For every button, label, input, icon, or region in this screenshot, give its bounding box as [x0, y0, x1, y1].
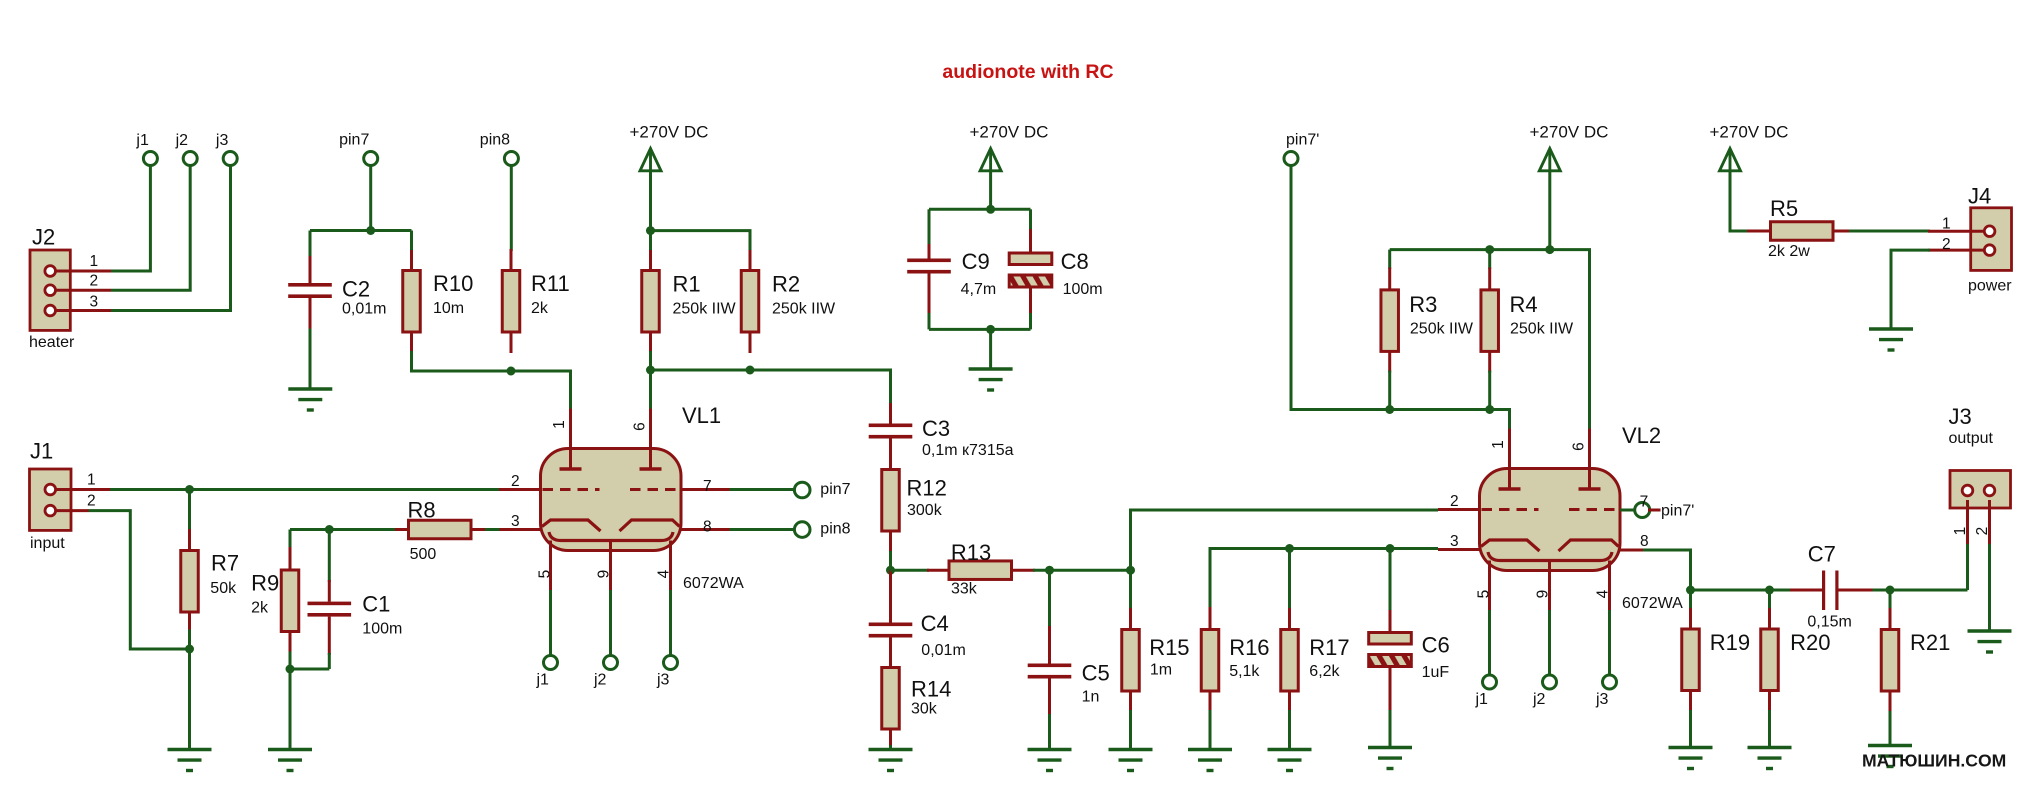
- svg-text:8: 8: [703, 519, 712, 536]
- svg-text:R19: R19: [1710, 630, 1750, 655]
- svg-text:R4: R4: [1510, 292, 1538, 317]
- capacitor C2: [309, 231, 312, 259]
- svg-text:2: 2: [90, 273, 99, 290]
- capacitor C4: [889, 570, 892, 622]
- svg-text:6,2k: 6,2k: [1309, 663, 1340, 680]
- junction R21 top: [1886, 586, 1895, 595]
- wire C9/C8 bottom rail: [929, 328, 1031, 331]
- wire R9-C1-R8 rail: [290, 528, 397, 531]
- svg-text:МАТЮШИН.COM: МАТЮШИН.COM: [1862, 751, 2006, 771]
- wire arrow1 down: [649, 171, 652, 231]
- terminal j2: [183, 152, 197, 166]
- wire R10/R11 bottom rail to VL1 pin1: [412, 351, 571, 409]
- capacitor C3: [889, 403, 892, 424]
- terminal j3: [223, 152, 237, 166]
- capacitor C5: [1048, 570, 1051, 628]
- wire VL1 pin8 lead: [681, 528, 730, 531]
- junction C9/C8 bottom: [986, 325, 995, 334]
- svg-text:C7: C7: [1808, 542, 1836, 567]
- VL1 anode pin 6: [649, 409, 652, 470]
- svg-text:pin7': pin7': [1286, 132, 1319, 149]
- VL2 cathode pin 3: [1481, 540, 1540, 551]
- svg-text:C9: C9: [962, 249, 990, 274]
- svg-text:input: input: [30, 535, 65, 552]
- resistor R11: [510, 249, 513, 271]
- resistor R12: [889, 439, 892, 471]
- svg-text:250k IIW: 250k IIW: [1410, 321, 1474, 338]
- junction R19 top: [1686, 586, 1695, 595]
- svg-text:0,01m: 0,01m: [921, 642, 965, 659]
- svg-text:j2: j2: [175, 132, 189, 149]
- svg-text:3: 3: [90, 294, 99, 311]
- svg-text:300k: 300k: [907, 502, 943, 519]
- svg-text:2: 2: [511, 473, 520, 490]
- terminal pin8 (VL1 out): [794, 522, 810, 538]
- svg-text:J2: J2: [32, 225, 55, 250]
- svg-text:R17: R17: [1309, 635, 1349, 660]
- svg-text:R5: R5: [1770, 196, 1798, 221]
- resistor R7: [188, 490, 191, 532]
- ground under R20: [1748, 746, 1792, 749]
- svg-text:3: 3: [1450, 533, 1459, 550]
- svg-text:0,15m: 0,15m: [1807, 614, 1851, 631]
- junction C5 top: [1045, 566, 1054, 575]
- junction R1 top node: [646, 226, 655, 235]
- terminal j3 (VL1): [664, 656, 678, 670]
- svg-text:pin7: pin7: [820, 481, 850, 498]
- svg-text:R20: R20: [1790, 630, 1830, 655]
- svg-text:C1: C1: [362, 592, 390, 617]
- svg-text:R9: R9: [251, 571, 279, 596]
- svg-text:j1: j1: [135, 132, 149, 149]
- resistor R13: [891, 569, 930, 572]
- connector J3: [1950, 471, 2011, 509]
- wire arrow2 down: [989, 171, 992, 210]
- junction pin7 node: [366, 226, 375, 235]
- terminal j1 (VL2): [1483, 675, 1497, 689]
- wire riser to VL2 grid: [1131, 510, 1439, 570]
- svg-text:50k: 50k: [210, 580, 237, 597]
- resistor R8: [395, 528, 409, 531]
- svg-text:7: 7: [703, 478, 712, 495]
- svg-text:30k: 30k: [911, 701, 938, 718]
- wire J1 pin1 to VL1 grid: [110, 488, 499, 491]
- svg-text:pin8: pin8: [820, 521, 850, 538]
- wire R1-R2 top rail: [651, 231, 751, 252]
- wire R9/C1 bottom: [290, 668, 329, 671]
- svg-text:C3: C3: [922, 416, 950, 441]
- VL2 cathode pin 8: [1559, 540, 1619, 551]
- svg-text:pin8: pin8: [480, 132, 510, 149]
- VL2 heater pin 9: [1548, 561, 1551, 613]
- svg-text:VL2: VL2: [1622, 423, 1661, 448]
- power +270V DC flag 4: [1720, 149, 1741, 171]
- terminal j1: [143, 152, 157, 166]
- svg-text:C2: C2: [342, 277, 370, 302]
- J3 pin 2 lead: [1988, 500, 1991, 544]
- junction C6 top: [1386, 544, 1395, 553]
- svg-text:100m: 100m: [362, 621, 402, 638]
- svg-text:R12: R12: [907, 476, 947, 501]
- junction R7 bottom: [185, 645, 194, 654]
- resistor R4: [1488, 250, 1491, 269]
- wire VL2 pin8 to R19/R20/C7 rail: [1620, 549, 1644, 552]
- VL2 anode pin 1: [1508, 429, 1511, 490]
- junction R17 top: [1285, 544, 1294, 553]
- VL2 grid pin 7 (dashed): [1569, 508, 1619, 511]
- junction R11 bottom: [507, 367, 516, 376]
- VL1 grid pin 7 (dashed): [630, 488, 680, 491]
- resistor R21: [1889, 590, 1892, 610]
- wire VL2 grid lead: [1620, 509, 1634, 512]
- svg-text:J1: J1: [30, 439, 53, 464]
- wire j1 to J2 pin1: [111, 165, 150, 271]
- capacitor C7: [1790, 589, 1824, 592]
- svg-text:R8: R8: [408, 498, 436, 523]
- J1 pin 1 lead: [55, 488, 110, 491]
- terminal pin7' (VL2 out): [1635, 503, 1650, 518]
- svg-text:8: 8: [1640, 533, 1649, 550]
- svg-text:250k IIW: 250k IIW: [772, 301, 836, 318]
- resistor R15: [1129, 570, 1132, 610]
- VL2 grid pin 2 (dashed): [1482, 508, 1539, 511]
- svg-text:power: power: [1968, 278, 2012, 295]
- svg-text:1uF: 1uF: [1422, 664, 1450, 681]
- J1 pin 2 lead: [55, 509, 89, 512]
- terminal pin7 (VL1 out): [794, 482, 810, 498]
- svg-text:4: 4: [1595, 589, 1612, 598]
- svg-text:2: 2: [1450, 493, 1459, 510]
- VL1 heater: [549, 532, 673, 541]
- wire arrow4 to R5: [1730, 171, 1749, 231]
- svg-text:500: 500: [410, 546, 437, 563]
- VL1 heater pin 5: [549, 541, 552, 593]
- svg-text:33k: 33k: [951, 581, 978, 598]
- svg-text:100m: 100m: [1063, 281, 1103, 298]
- ground under R17: [1268, 748, 1312, 751]
- svg-text:C5: C5: [1082, 661, 1110, 686]
- svg-text:1: 1: [1952, 527, 1969, 536]
- junction R12/C4/R13 node: [886, 566, 895, 575]
- junction R7 top: [185, 485, 194, 494]
- terminal pin8: [504, 152, 518, 166]
- VL1 cathode pin 3: [542, 520, 601, 531]
- connector J2: [30, 250, 70, 330]
- junction C1 top: [325, 525, 334, 534]
- VL2 anode pin 6: [1588, 429, 1591, 490]
- svg-text:3: 3: [511, 513, 520, 530]
- svg-text:J4: J4: [1968, 184, 1991, 209]
- wire VL1 j2 drop: [609, 590, 612, 656]
- resistor R20: [1768, 590, 1771, 610]
- svg-text:j3: j3: [215, 132, 229, 149]
- svg-text:9: 9: [1535, 590, 1552, 599]
- wire pin8 down to R11: [510, 165, 513, 251]
- svg-text:1m: 1m: [1150, 662, 1172, 679]
- svg-text:R21: R21: [1910, 630, 1950, 655]
- ground under R7: [168, 748, 212, 751]
- svg-text:VL1: VL1: [682, 403, 721, 428]
- power +270V DC flag 3: [1539, 149, 1560, 171]
- svg-text:output: output: [1949, 430, 1994, 447]
- wire to J3 pin1: [1966, 542, 1969, 590]
- svg-text:+270V DC: +270V DC: [970, 123, 1049, 142]
- ground under R16: [1188, 748, 1232, 751]
- svg-text:J3: J3: [1949, 404, 1972, 429]
- wire VL1 pin6 drop: [649, 370, 652, 409]
- svg-text:1: 1: [1942, 216, 1951, 233]
- junction R4 top: [1485, 245, 1494, 254]
- wire VL2 j2 drop: [1548, 610, 1551, 675]
- svg-text:audionote with RC: audionote with RC: [942, 61, 1113, 83]
- wire C9/C8 top rail: [929, 208, 1031, 211]
- svg-text:j3: j3: [1595, 691, 1609, 708]
- ground under R14: [869, 748, 913, 751]
- wire VL2 pin6 stub: [1588, 431, 1591, 469]
- junction R2 bottom: [746, 366, 755, 375]
- wire VL1 j1 drop: [549, 590, 552, 656]
- junction R9 bottom: [286, 665, 295, 674]
- svg-text:C4: C4: [921, 611, 949, 636]
- svg-text:heater: heater: [29, 334, 75, 351]
- junction R15/grid riser: [1126, 566, 1135, 575]
- svg-text:+270V DC: +270V DC: [630, 123, 709, 142]
- junction C9/C8 top: [986, 205, 995, 214]
- wire J1 pin2 loop down: [89, 511, 190, 649]
- resistor R3: [1388, 250, 1391, 269]
- wire R9 to ground: [289, 669, 292, 750]
- ground under R9: [268, 748, 312, 751]
- svg-text:2k: 2k: [531, 300, 549, 317]
- svg-text:C6: C6: [1422, 633, 1450, 658]
- ground under C2: [288, 387, 332, 390]
- J2 pin 1 lead: [55, 270, 111, 273]
- svg-text:9: 9: [596, 570, 613, 579]
- svg-text:0,1m к7315a: 0,1m к7315a: [922, 442, 1014, 459]
- J3 pin 1 lead: [1966, 500, 1969, 544]
- VL2 heater pin 5: [1488, 561, 1491, 613]
- svg-text:250k IIW: 250k IIW: [1510, 321, 1574, 338]
- resistor R5: [1747, 230, 1771, 233]
- terminal pin7: [364, 152, 378, 166]
- J4 pin 2 lead: [1928, 249, 1986, 252]
- VL1 heater pin 9: [609, 541, 612, 593]
- ground under C8/C9: [969, 367, 1013, 370]
- terminal j1 (VL1): [544, 656, 558, 670]
- svg-text:7: 7: [1640, 494, 1649, 511]
- svg-text:1: 1: [551, 420, 568, 429]
- wire pin7 down: [369, 165, 372, 230]
- wire C2 to ground: [309, 329, 312, 390]
- wire R1/R2 bottom rail to C3: [651, 351, 891, 405]
- VL1 heater pin 4: [669, 541, 672, 593]
- svg-text:R14: R14: [911, 677, 951, 702]
- svg-text:2: 2: [1942, 236, 1951, 253]
- svg-text:2: 2: [87, 493, 96, 510]
- terminal j2 (VL1): [604, 656, 618, 670]
- wire to ground (C9/C8): [989, 329, 992, 369]
- svg-text:R11: R11: [531, 271, 570, 296]
- wire R5 to J4 pin1: [1849, 230, 1930, 233]
- svg-text:+270V DC: +270V DC: [1710, 123, 1789, 142]
- VL1 grid pin 2 (dashed): [543, 488, 600, 491]
- svg-text:0,01m: 0,01m: [342, 301, 386, 318]
- wire j3 to J2 pin3: [111, 165, 231, 310]
- svg-text:pin7: pin7: [339, 132, 369, 149]
- svg-text:2: 2: [1974, 527, 1991, 536]
- svg-text:j2: j2: [593, 672, 607, 689]
- svg-text:5,1k: 5,1k: [1229, 663, 1260, 680]
- VL1 anode pin 1: [569, 409, 572, 470]
- VL2 heater pin 4: [1608, 561, 1611, 613]
- junction R1 bottom / VL1 pin6: [646, 366, 655, 375]
- resistor R19: [1689, 590, 1692, 610]
- junction R4 bottom: [1485, 405, 1494, 414]
- svg-text:2k 2w: 2k 2w: [1768, 243, 1810, 260]
- svg-text:C8: C8: [1061, 249, 1089, 274]
- svg-text:1: 1: [87, 472, 96, 489]
- svg-text:4: 4: [656, 569, 673, 578]
- svg-text:R2: R2: [772, 272, 800, 297]
- svg-text:j3: j3: [656, 672, 670, 689]
- svg-text:10m: 10m: [433, 300, 464, 317]
- resistor R16: [1209, 607, 1212, 630]
- svg-text:5: 5: [537, 570, 554, 579]
- triode tube VL2 body: [1480, 469, 1621, 571]
- wire C2/R10 top rail: [310, 229, 412, 232]
- connector J1: [30, 469, 72, 530]
- wire VL2 j3 drop: [1608, 610, 1611, 675]
- svg-text:R10: R10: [433, 271, 473, 296]
- svg-text:j1: j1: [536, 672, 550, 689]
- wire R7 to ground: [188, 649, 191, 750]
- terminal pin7' (top): [1284, 152, 1298, 166]
- ground under R15: [1109, 748, 1153, 751]
- wire pin7' down and across: [1291, 165, 1510, 431]
- wire R13 to C5/R15: [1033, 569, 1131, 572]
- svg-text:R15: R15: [1149, 635, 1189, 660]
- capacitor C8 (electrolytic): [1029, 209, 1032, 231]
- wire VL1 pin7 lead: [681, 488, 730, 491]
- wire VL2 j1 drop: [1488, 610, 1491, 675]
- svg-text:j2: j2: [1532, 691, 1546, 708]
- svg-text:R13: R13: [951, 540, 991, 565]
- svg-text:1: 1: [90, 253, 99, 270]
- resistor R1: [649, 231, 652, 252]
- svg-text:2k: 2k: [251, 600, 269, 617]
- wire R16/R17/C6 rail to VL2 pin3: [1210, 549, 1438, 608]
- junction R20 top: [1765, 586, 1774, 595]
- ground under C6: [1368, 746, 1412, 749]
- VL2 heater: [1488, 552, 1612, 561]
- svg-text:1: 1: [1490, 440, 1507, 449]
- wire R3/R4 top rail: [1390, 250, 1590, 433]
- wire arrow3 down: [1548, 171, 1551, 250]
- svg-text:250k IIW: 250k IIW: [673, 301, 737, 318]
- svg-text:R1: R1: [673, 272, 701, 297]
- svg-text:4,7m: 4,7m: [961, 281, 997, 298]
- capacitor C9: [928, 209, 931, 246]
- svg-text:+270V DC: +270V DC: [1530, 123, 1609, 142]
- svg-text:1n: 1n: [1082, 689, 1100, 706]
- svg-text:5: 5: [1476, 590, 1493, 599]
- wire VL1 j3 drop: [669, 590, 672, 656]
- resistor R9: [289, 530, 292, 550]
- terminal j3 (VL2): [1603, 675, 1617, 689]
- svg-text:R16: R16: [1229, 635, 1269, 660]
- resistor R2: [749, 250, 752, 271]
- wire VL2 pin1 stub: [1508, 429, 1511, 469]
- ground under C5: [1028, 748, 1072, 751]
- VL1 cathode pin 8: [620, 520, 680, 531]
- connector J4: [1971, 208, 2012, 271]
- junction R3 bottom: [1385, 405, 1394, 414]
- svg-text:pin7': pin7': [1661, 503, 1694, 520]
- svg-text:R7: R7: [211, 551, 239, 576]
- wire j2 to J2 pin2: [111, 165, 190, 290]
- ground under J4: [1869, 327, 1913, 330]
- J4 pin 1 lead: [1928, 230, 1986, 233]
- wire J3 pin2 to ground: [1988, 544, 1991, 631]
- ground under R21: [1868, 744, 1912, 747]
- ground under R19: [1669, 746, 1713, 749]
- J2 pin 2 lead: [55, 289, 111, 292]
- triode tube VL1 body: [541, 449, 682, 551]
- svg-text:6072WA: 6072WA: [1622, 595, 1683, 612]
- ground under J3: [1968, 629, 2012, 632]
- power +270V DC flag 2: [980, 149, 1001, 171]
- svg-text:6: 6: [1571, 442, 1588, 451]
- svg-text:6: 6: [632, 422, 649, 431]
- resistor R10: [410, 231, 413, 253]
- power +270V DC flag 1: [640, 149, 661, 171]
- J2 pin 3 lead: [55, 309, 111, 312]
- wire J4 pin2 to ground: [1891, 250, 1930, 329]
- resistor R14: [889, 638, 892, 669]
- capacitor C1: [328, 530, 331, 583]
- terminal j2 (VL2): [1543, 675, 1557, 689]
- svg-text:j1: j1: [1475, 691, 1489, 708]
- junction arrow3: [1545, 245, 1554, 254]
- svg-text:R3: R3: [1409, 292, 1437, 317]
- svg-text:6072WA: 6072WA: [683, 575, 744, 592]
